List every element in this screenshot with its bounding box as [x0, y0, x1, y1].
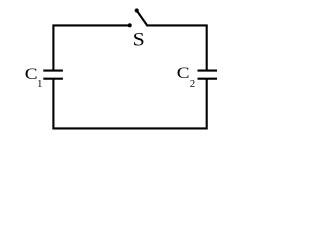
capacitor C2 bottom plate: [198, 78, 218, 80]
capacitor C1 top plate: [43, 70, 63, 72]
svg-text:2: 2: [190, 79, 195, 90]
wire: top-right segment from switch to top-right corner down to C2 top plate: [146, 25, 206, 70]
capacitor C2 top plate: [198, 70, 218, 72]
wire: top-left segment from switch terminal to top-left corner down to C1 top plate: [53, 25, 129, 70]
switch S blade (open): [137, 11, 148, 26]
svg-text:C: C: [25, 65, 38, 83]
node: switch left terminal dot: [128, 23, 132, 27]
node: switch pivot dot: [135, 8, 139, 12]
wire: bottom loop from C1 bottom plate down, across bottom, up to C2 bottom plate: [53, 79, 206, 129]
capacitor C1 bottom plate: [43, 78, 63, 80]
svg-text:S: S: [133, 30, 145, 50]
svg-text:1: 1: [37, 79, 42, 90]
svg-text:C: C: [177, 64, 190, 82]
